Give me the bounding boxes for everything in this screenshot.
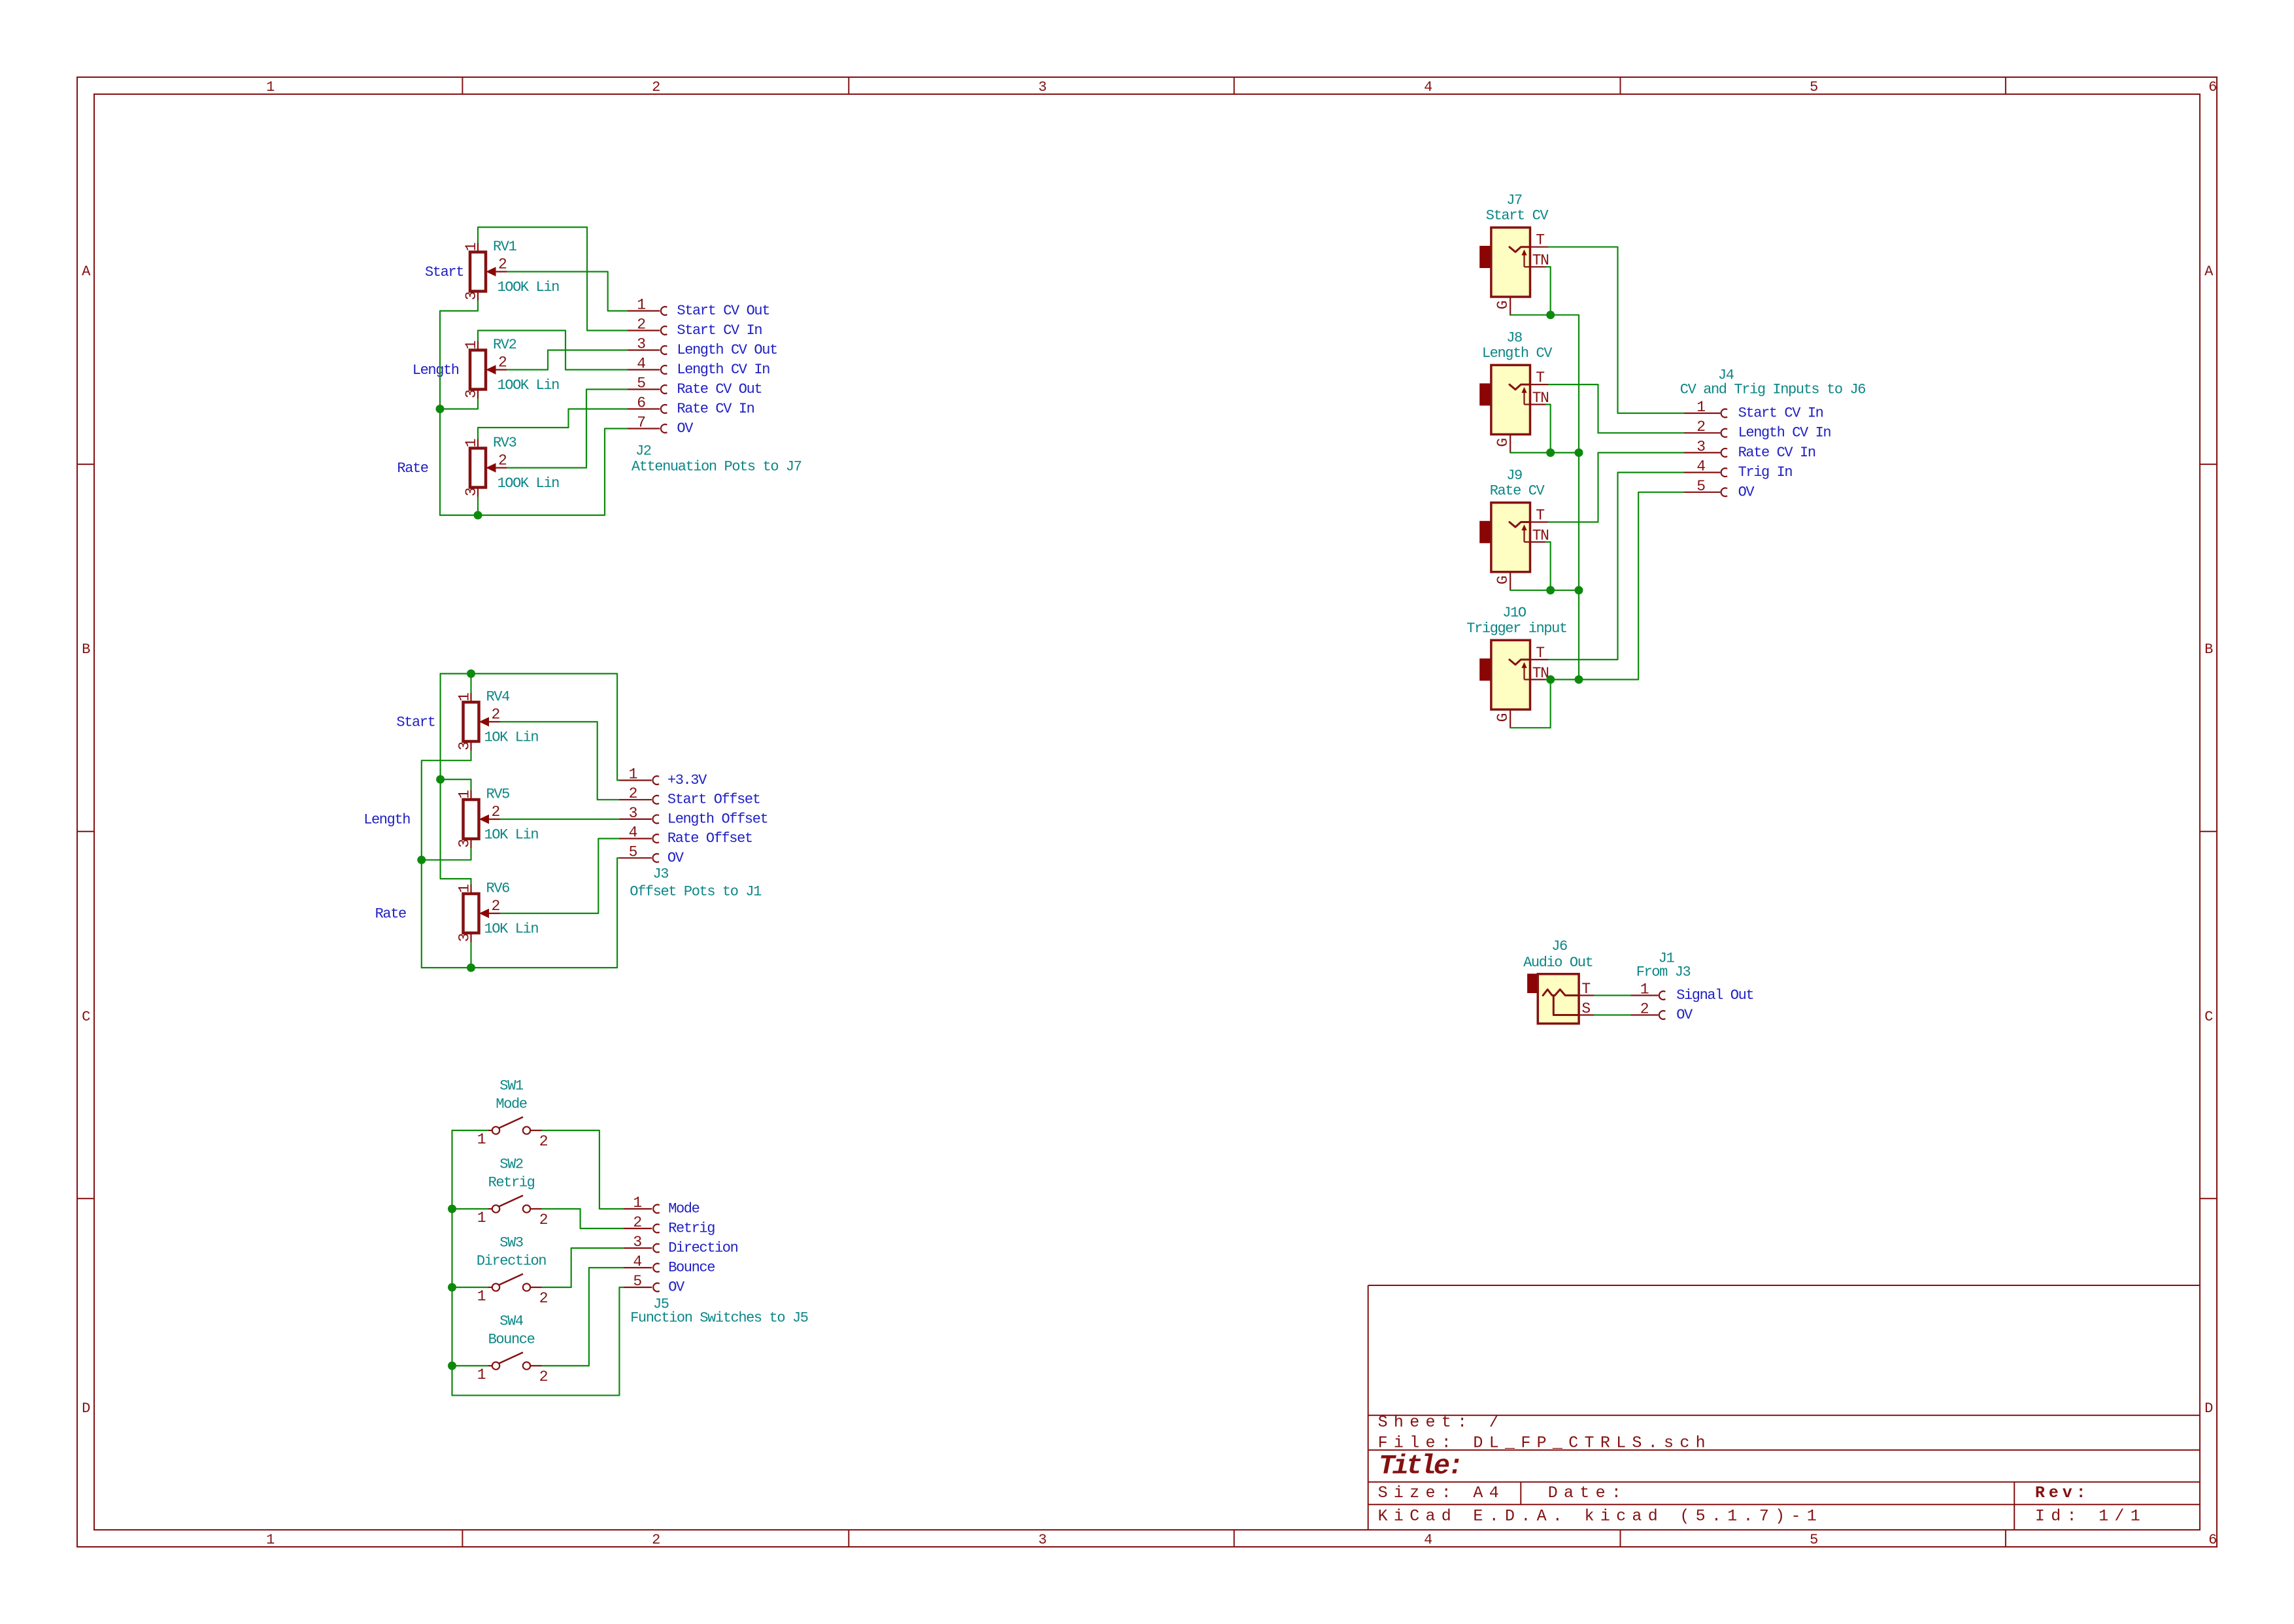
svg-text:3: 3	[1038, 79, 1046, 95]
svg-text:Trig In: Trig In	[1738, 464, 1793, 481]
svg-text:2: 2	[492, 898, 500, 915]
junction	[417, 856, 426, 864]
J7 pin G	[1510, 297, 1511, 315]
svg-text:4: 4	[1424, 1532, 1432, 1548]
wire	[441, 779, 471, 884]
svg-text:Length CV In: Length CV In	[677, 362, 769, 378]
svg-text:Id: 1/1: Id: 1/1	[2035, 1507, 2146, 1526]
wire	[501, 839, 620, 913]
wire	[441, 673, 620, 780]
wire	[452, 1287, 488, 1288]
J10 pin G	[1510, 709, 1511, 728]
svg-text:Sheet: /: Sheet: /	[1378, 1413, 1505, 1432]
svg-text:1: 1	[463, 341, 480, 349]
J2 pin 3	[628, 349, 660, 350]
svg-text:1: 1	[456, 885, 473, 893]
svg-text:5: 5	[1696, 478, 1705, 495]
potentiometer RV4	[464, 692, 501, 751]
J9 pin G	[1510, 572, 1511, 590]
svg-text:1: 1	[477, 1366, 486, 1383]
svg-text:Trigger input: Trigger input	[1466, 620, 1566, 637]
wire	[452, 1130, 488, 1131]
svg-text:SW3: SW3	[499, 1235, 523, 1251]
wire	[543, 1209, 624, 1228]
J1 pin 2	[1631, 1014, 1659, 1015]
svg-text:B: B	[82, 641, 90, 658]
svg-text:D: D	[2204, 1400, 2213, 1417]
svg-text:RV1: RV1	[493, 239, 517, 255]
potentiometer RV2	[470, 341, 507, 399]
svg-text:J1O: J1O	[1502, 605, 1527, 621]
svg-text:3: 3	[456, 839, 473, 848]
potentiometer RV6	[464, 884, 501, 943]
wire	[501, 819, 620, 820]
svg-text:5: 5	[1810, 1532, 1817, 1548]
wire	[1546, 542, 1551, 590]
wire	[422, 751, 471, 968]
junction	[1546, 586, 1555, 594]
wire	[1510, 679, 1551, 728]
wire	[422, 849, 471, 860]
svg-text:OV: OV	[667, 850, 684, 866]
svg-text:J3: J3	[653, 866, 669, 883]
svg-text:3: 3	[463, 488, 480, 496]
svg-text:D: D	[82, 1400, 90, 1417]
svg-text:J6: J6	[1551, 938, 1567, 955]
svg-text:5: 5	[1810, 79, 1817, 95]
J3 pin 5	[619, 857, 652, 858]
J5 pin 2	[624, 1228, 652, 1229]
svg-text:2: 2	[498, 354, 507, 371]
svg-text:J9: J9	[1506, 467, 1522, 484]
audio jack J8	[1480, 365, 1530, 434]
svg-text:2: 2	[637, 316, 645, 333]
wire	[543, 1268, 624, 1366]
junction	[448, 1283, 456, 1292]
svg-text:G: G	[1494, 576, 1511, 584]
wire	[543, 1130, 624, 1209]
wire	[1546, 492, 1685, 680]
potentiometer RV3	[470, 439, 507, 498]
svg-text:Signal Out: Signal Out	[1676, 987, 1753, 1004]
svg-text:T: T	[1536, 645, 1544, 662]
svg-text:1: 1	[463, 243, 480, 251]
svg-text:+3.3V: +3.3V	[667, 772, 707, 788]
svg-text:6: 6	[2208, 79, 2216, 95]
svg-text:2: 2	[498, 256, 507, 273]
wire	[440, 399, 478, 409]
svg-text:1OK Lin: 1OK Lin	[484, 730, 539, 746]
svg-text:2: 2	[539, 1133, 548, 1150]
svg-text:CV and Trig Inputs to J6: CV and Trig Inputs to J6	[1680, 382, 1865, 398]
svg-text:G: G	[1494, 301, 1511, 309]
svg-text:Bounce: Bounce	[668, 1260, 715, 1276]
svg-text:G: G	[1494, 713, 1511, 722]
svg-text:Retrig: Retrig	[668, 1221, 715, 1237]
wire	[440, 301, 478, 516]
svg-text:4: 4	[1696, 458, 1705, 475]
svg-text:T: T	[1536, 507, 1544, 524]
svg-text:Rate: Rate	[375, 906, 406, 922]
J3 pin 3	[619, 819, 652, 820]
svg-text:T: T	[1581, 981, 1590, 998]
svg-text:Start Offset: Start Offset	[667, 792, 760, 808]
svg-text:2: 2	[652, 79, 660, 95]
svg-text:3: 3	[1696, 438, 1705, 455]
svg-text:Start CV Out: Start CV Out	[677, 303, 769, 319]
junction	[1575, 448, 1583, 457]
svg-text:Mode: Mode	[496, 1096, 526, 1113]
potentiometer RV1	[470, 243, 507, 301]
svg-text:2: 2	[629, 785, 637, 802]
svg-text:OV: OV	[1676, 1007, 1693, 1023]
svg-text:OV: OV	[677, 420, 694, 437]
svg-text:B: B	[2204, 641, 2213, 658]
svg-text:Bounce: Bounce	[488, 1332, 535, 1348]
J2 pin 1	[628, 310, 660, 311]
svg-text:Size: A4: Size: A4	[1378, 1483, 1505, 1502]
svg-text:4: 4	[637, 356, 645, 373]
J4 pin 3	[1684, 452, 1720, 453]
wire	[452, 1287, 624, 1395]
svg-text:Start: Start	[425, 264, 464, 280]
svg-text:Direction: Direction	[668, 1240, 737, 1257]
svg-text:1: 1	[1696, 399, 1705, 416]
svg-text:Length CV: Length CV	[1482, 345, 1553, 362]
svg-text:3: 3	[629, 805, 637, 822]
svg-text:1: 1	[477, 1210, 486, 1226]
J4 pin 1	[1684, 413, 1720, 414]
svg-text:1: 1	[1640, 981, 1649, 998]
svg-text:Length CV Out: Length CV Out	[677, 342, 777, 358]
svg-text:Date:: Date:	[1548, 1483, 1628, 1502]
svg-text:Rate CV In: Rate CV In	[1738, 445, 1815, 461]
J2 pin 2	[628, 330, 660, 331]
J8 pin G	[1510, 434, 1511, 452]
wire	[507, 350, 628, 370]
svg-text:Length: Length	[413, 362, 459, 379]
svg-text:Retrig: Retrig	[488, 1175, 535, 1191]
svg-text:2: 2	[539, 1368, 548, 1385]
svg-text:3: 3	[456, 742, 473, 751]
svg-text:J7: J7	[1506, 192, 1522, 209]
junction	[1546, 311, 1555, 319]
svg-text:Length CV In: Length CV In	[1738, 425, 1831, 441]
junction	[1575, 586, 1583, 594]
svg-text:Length Offset: Length Offset	[667, 811, 767, 827]
svg-text:1: 1	[456, 693, 473, 702]
junction	[467, 669, 475, 678]
J5 pin 3	[624, 1247, 652, 1249]
svg-text:4: 4	[1424, 79, 1432, 95]
svg-text:RV3: RV3	[493, 435, 516, 451]
svg-text:1OK Lin: 1OK Lin	[484, 827, 539, 843]
svg-text:2: 2	[1696, 418, 1705, 435]
svg-text:2: 2	[498, 452, 507, 469]
svg-text:Length: Length	[363, 812, 410, 828]
svg-text:1OOK Lin: 1OOK Lin	[498, 279, 560, 296]
svg-text:G: G	[1494, 439, 1511, 447]
J4 pin 5	[1684, 492, 1720, 493]
J2 pin 5	[628, 388, 660, 390]
J5 pin 4	[624, 1267, 652, 1268]
svg-text:2: 2	[539, 1290, 548, 1307]
wire	[478, 409, 628, 439]
svg-text:Start CV: Start CV	[1486, 208, 1549, 224]
junction	[436, 775, 445, 784]
J4 pin 4	[1684, 471, 1720, 473]
wire	[501, 722, 620, 800]
wire	[1546, 267, 1551, 315]
J3 pin 1	[619, 779, 652, 781]
svg-text:3: 3	[456, 934, 473, 942]
svg-text:Title:: Title:	[1379, 1451, 1461, 1482]
J9 pin TN	[1530, 541, 1546, 543]
svg-text:SW2: SW2	[499, 1157, 523, 1173]
audio jack J6	[1528, 974, 1579, 1024]
svg-text:7: 7	[637, 414, 645, 431]
svg-text:File: DL_FP_CTRLS.sch: File: DL_FP_CTRLS.sch	[1378, 1434, 1712, 1453]
svg-text:C: C	[2204, 1009, 2213, 1025]
wire	[477, 498, 479, 516]
wire	[470, 943, 471, 968]
J10 pin T	[1530, 659, 1549, 660]
svg-text:3: 3	[633, 1234, 641, 1251]
svg-text:1: 1	[629, 766, 637, 783]
svg-text:C: C	[82, 1009, 90, 1025]
junction	[1546, 448, 1555, 457]
svg-text:3: 3	[463, 292, 480, 300]
svg-text:Rate CV Out: Rate CV Out	[677, 381, 762, 398]
audio jack J7	[1480, 228, 1530, 297]
svg-text:RV4: RV4	[486, 689, 511, 705]
wire	[543, 1248, 624, 1287]
svg-text:S: S	[1581, 1000, 1590, 1017]
svg-text:5: 5	[633, 1273, 641, 1290]
J7 pin T	[1530, 246, 1549, 248]
svg-text:SW4: SW4	[499, 1313, 524, 1330]
svg-text:5: 5	[629, 843, 637, 860]
J4 pin 2	[1684, 432, 1720, 433]
wire	[1594, 1014, 1631, 1015]
J1 pin 1	[1631, 994, 1659, 996]
audio jack J9	[1480, 503, 1530, 572]
audio jack J10	[1480, 640, 1530, 709]
J8 pin T	[1530, 384, 1549, 385]
J7 pin TN	[1530, 266, 1546, 267]
J9 pin T	[1530, 521, 1549, 522]
svg-text:2: 2	[492, 804, 500, 820]
svg-text:2: 2	[652, 1532, 660, 1548]
svg-text:Mode: Mode	[668, 1201, 699, 1217]
J6 pin T	[1579, 994, 1594, 996]
svg-text:1: 1	[463, 439, 480, 447]
wire	[1510, 590, 1579, 591]
svg-text:6: 6	[2208, 1532, 2216, 1548]
svg-text:Start CV In: Start CV In	[677, 322, 762, 339]
svg-text:RV6: RV6	[486, 881, 510, 897]
J5 pin 1	[624, 1208, 652, 1210]
junction	[1575, 675, 1583, 684]
wire	[440, 429, 628, 516]
junction	[436, 405, 445, 413]
svg-text:Audio Out: Audio Out	[1523, 955, 1593, 971]
svg-text:RV5: RV5	[486, 787, 510, 803]
wire	[1510, 452, 1579, 453]
svg-text:Attenuation Pots to J7: Attenuation Pots to J7	[632, 459, 801, 475]
svg-text:SW1: SW1	[499, 1078, 524, 1094]
junction	[448, 1205, 456, 1213]
wire	[422, 858, 620, 968]
svg-text:Rev:: Rev:	[2035, 1483, 2090, 1502]
switch SW1	[488, 1117, 543, 1134]
wire	[1549, 473, 1684, 660]
svg-text:Function Switches to J5: Function Switches to J5	[630, 1310, 808, 1327]
wire	[1549, 452, 1684, 522]
svg-text:2: 2	[1640, 1001, 1649, 1018]
J2 pin 7	[628, 428, 660, 429]
svg-text:T: T	[1536, 369, 1544, 386]
svg-text:3: 3	[637, 336, 645, 353]
svg-text:1: 1	[266, 79, 275, 95]
junction	[1546, 675, 1555, 684]
svg-text:1: 1	[266, 1532, 275, 1548]
svg-text:OV: OV	[1738, 484, 1755, 500]
switch SW2	[488, 1196, 543, 1213]
svg-text:Rate: Rate	[397, 460, 428, 477]
J10 pin TN	[1530, 679, 1546, 680]
title block	[1368, 1285, 2200, 1530]
wire	[1510, 315, 1579, 680]
junction	[467, 964, 475, 972]
svg-text:Offset Pots to J1: Offset Pots to J1	[630, 884, 762, 900]
svg-text:4: 4	[633, 1253, 641, 1270]
svg-text:Direction: Direction	[477, 1253, 546, 1270]
svg-text:J8: J8	[1506, 330, 1522, 346]
svg-text:5: 5	[637, 375, 645, 392]
wire	[1549, 384, 1684, 433]
J8 pin TN	[1530, 403, 1546, 405]
wire	[1594, 994, 1631, 996]
svg-text:KiCad E.D.A. kicad (5.1.7)-1: KiCad E.D.A. kicad (5.1.7)-1	[1378, 1507, 1823, 1526]
wire	[451, 1130, 452, 1395]
J5 pin 5	[624, 1287, 652, 1288]
svg-text:1: 1	[637, 297, 645, 314]
svg-text:J2: J2	[635, 443, 651, 460]
svg-text:Start: Start	[396, 715, 435, 731]
svg-text:1: 1	[477, 1288, 486, 1305]
J2 pin 6	[628, 408, 660, 409]
svg-text:2: 2	[633, 1214, 641, 1231]
svg-text:3: 3	[463, 390, 480, 398]
switch SW3	[488, 1274, 543, 1291]
svg-text:6: 6	[637, 395, 645, 412]
svg-text:3: 3	[1038, 1532, 1046, 1548]
svg-text:1OOK Lin: 1OOK Lin	[498, 475, 560, 492]
J2 pin 4	[628, 369, 660, 370]
svg-text:Rate CV: Rate CV	[1490, 483, 1545, 499]
svg-text:4: 4	[629, 824, 637, 841]
wire	[507, 390, 628, 468]
svg-text:2: 2	[539, 1211, 548, 1228]
svg-text:Rate CV In: Rate CV In	[677, 401, 754, 417]
J3 pin 2	[619, 799, 652, 800]
wire	[441, 673, 471, 790]
wire	[452, 1365, 488, 1366]
svg-text:1OOK Lin: 1OOK Lin	[498, 377, 560, 394]
junction	[448, 1362, 456, 1370]
J3 pin 4	[619, 837, 652, 839]
svg-text:RV2: RV2	[493, 337, 516, 353]
wire	[478, 331, 628, 370]
wire	[1546, 405, 1551, 453]
wire	[470, 673, 471, 692]
junction	[474, 511, 482, 520]
svg-text:Rate Offset: Rate Offset	[667, 830, 752, 847]
wire	[478, 228, 628, 331]
svg-text:OV: OV	[668, 1279, 685, 1296]
wire	[507, 272, 628, 311]
wire	[452, 1208, 488, 1210]
switch SW4	[488, 1353, 543, 1370]
potentiometer RV5	[464, 790, 501, 849]
svg-text:1: 1	[633, 1194, 641, 1211]
wire	[1549, 247, 1684, 413]
svg-text:2: 2	[492, 706, 500, 723]
svg-text:Start CV In: Start CV In	[1738, 405, 1823, 422]
svg-text:T: T	[1536, 232, 1544, 249]
svg-text:1OK Lin: 1OK Lin	[484, 921, 539, 938]
svg-text:1: 1	[456, 790, 473, 799]
J6 pin S	[1579, 1014, 1594, 1015]
svg-text:1: 1	[477, 1131, 486, 1148]
svg-text:From J3: From J3	[1636, 964, 1691, 980]
